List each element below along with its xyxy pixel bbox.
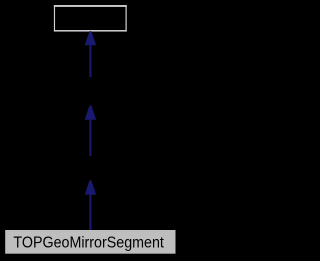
class node TOPGeoMirrorSegment (current class, gray box) [5, 230, 175, 254]
inheritance arrow 2 (middle) [85, 105, 96, 156]
inheritance arrow 1 (to top box) [85, 31, 96, 77]
svg-text:TOPGeoMirrorSegment: TOPGeoMirrorSegment [13, 235, 164, 252]
class box TObject (top ancestor, black fill, light border) [54, 5, 127, 32]
inheritance arrow 3 (to bottom node) [85, 180, 96, 230]
